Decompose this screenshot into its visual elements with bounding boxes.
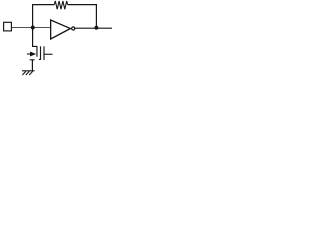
transistor Q1 gate bar [36, 46, 38, 57]
pad P1 (input pad square) [4, 22, 12, 31]
ground (chassis ground symbol) [22, 71, 35, 75]
op-amp U1 output bubble [72, 27, 75, 30]
wire source to ground [31, 60, 33, 71]
wire Q1 source lead [30, 59, 35, 61]
wire Q1 lead right [44, 53, 53, 55]
wire input (pad to inverter input) [12, 26, 51, 28]
wire junction up to top rail [32, 5, 34, 28]
wire top rail left [32, 4, 54, 6]
op-amp U1 (inverter triangle) [51, 20, 71, 39]
transistor Q1 substrate arrow [27, 52, 36, 57]
wire gate drop (junction down to Q1) [33, 28, 38, 47]
node B (output junction dot) [94, 26, 98, 30]
wire output (bubble to right edge) [75, 27, 112, 29]
wire top rail right [68, 4, 97, 6]
node A (input junction dot) [31, 26, 35, 30]
resistor R1 (feedback resistor zigzag) [54, 1, 67, 9]
wire feedback vertical (top rail down to output node) [95, 4, 97, 28]
transistor Q1 channel bar [39, 46, 41, 60]
transistor Q1 bulk bar [43, 46, 45, 60]
